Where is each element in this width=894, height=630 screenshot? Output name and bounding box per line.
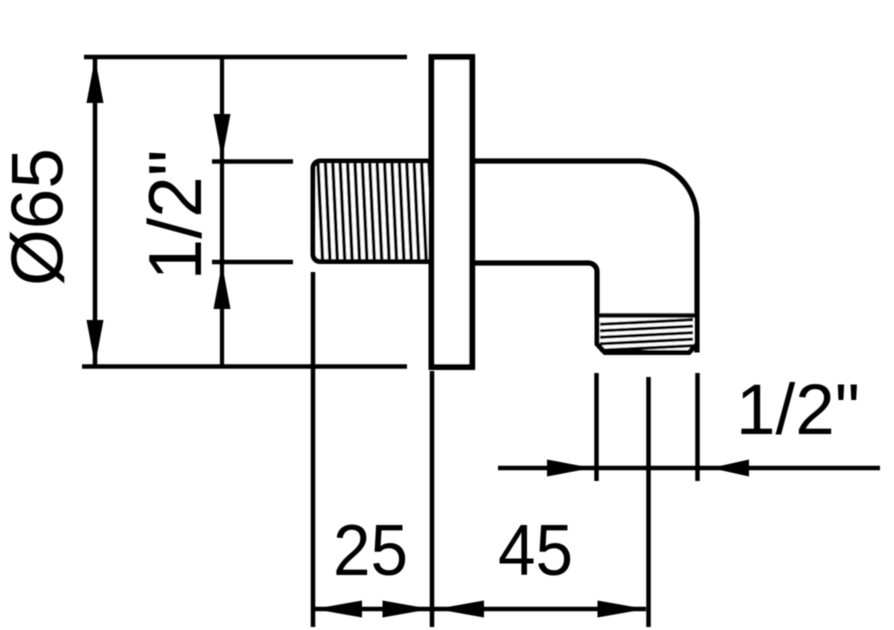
extension line below pipe (x=313) bbox=[311, 272, 316, 627]
svg-text:45: 45 bbox=[498, 510, 573, 591]
thread hatch (left pipe) bbox=[318, 164, 434, 260]
wall flange bbox=[432, 57, 473, 367]
extension tick 1/2 inch left (x=596.5) bbox=[594, 373, 599, 481]
arrowhead 1/2 bottom (pointing up) bbox=[214, 264, 231, 309]
arrowhead 25 left bbox=[314, 601, 362, 618]
extension tick 1/2 inch right (x=697.5) bbox=[695, 373, 700, 481]
tick bottom (pipe bottom level) bbox=[212, 260, 293, 265]
extension line 45 right (x=648.5) bbox=[646, 377, 651, 627]
arrowhead 45 left bbox=[436, 601, 484, 618]
svg-text:Ø65: Ø65 bbox=[0, 148, 79, 286]
bottom dimension line (25 and 45) bbox=[314, 607, 646, 612]
arrowhead D65 bottom bbox=[87, 320, 104, 365]
extension line below flange (x=432) bbox=[430, 371, 435, 627]
arrowhead 1/2 top (pointing down) bbox=[214, 114, 231, 159]
svg-text:1/2": 1/2" bbox=[133, 150, 217, 281]
dimension line 1/2 inch horizontal (right) bbox=[498, 466, 880, 471]
svg-text:1/2": 1/2" bbox=[736, 371, 860, 450]
arrowhead 1/2h pointing left bbox=[711, 460, 749, 477]
dimension line D65 (vertical, left) bbox=[93, 57, 98, 366]
top extension line bbox=[84, 55, 407, 60]
svg-text:25: 25 bbox=[333, 510, 408, 591]
elbow body (inner contour) bbox=[470, 263, 597, 316]
arrowhead 25 right bbox=[383, 601, 431, 618]
bottom extension line bbox=[82, 364, 407, 369]
arrowhead D65 top bbox=[87, 58, 104, 103]
arrowhead 1/2h pointing right bbox=[547, 460, 592, 477]
elbow body (outer contour) bbox=[470, 161, 697, 353]
threaded pipe (left, male thread) bbox=[313, 161, 436, 262]
tick top (pipe top level) bbox=[212, 159, 293, 164]
dimension line 1/2 inch (vertical) bbox=[220, 57, 224, 366]
thread hatch (bottom end) bbox=[600, 320, 693, 351]
thread boundary line (bottom end) bbox=[597, 313, 697, 318]
arrowhead 45 right bbox=[598, 601, 646, 618]
elbow bottom threaded end outline bbox=[597, 313, 697, 353]
